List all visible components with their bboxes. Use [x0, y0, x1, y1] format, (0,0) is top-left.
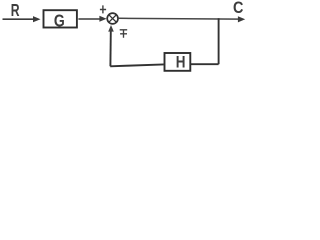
wire G to summing junction — [78, 18, 101, 20]
arrowhead up into summing junction — [108, 25, 114, 32]
block G — [44, 10, 77, 27]
svg-text:H: H — [176, 53, 186, 72]
arrowhead into G — [33, 16, 41, 22]
arrowhead to C — [238, 16, 245, 22]
wire input R to G — [3, 18, 36, 20]
summing junction circle — [107, 13, 118, 24]
arrowhead into summing junction — [99, 16, 106, 22]
svg-text:G: G — [54, 11, 65, 31]
svg-text:C: C — [233, 0, 244, 17]
takeoff node wire down — [218, 18, 220, 64]
summing junction X — [109, 15, 116, 22]
wire summing junction to C — [118, 17, 239, 20]
wire corner up to summing junction — [109, 31, 111, 67]
minus-plus sign (bottom input) — [120, 30, 128, 38]
plus sign (top input) — [100, 5, 106, 13]
svg-text:R: R — [11, 0, 20, 20]
wire takeoff to H — [191, 63, 219, 65]
block H — [165, 53, 191, 71]
wire H to corner — [110, 64, 164, 66]
